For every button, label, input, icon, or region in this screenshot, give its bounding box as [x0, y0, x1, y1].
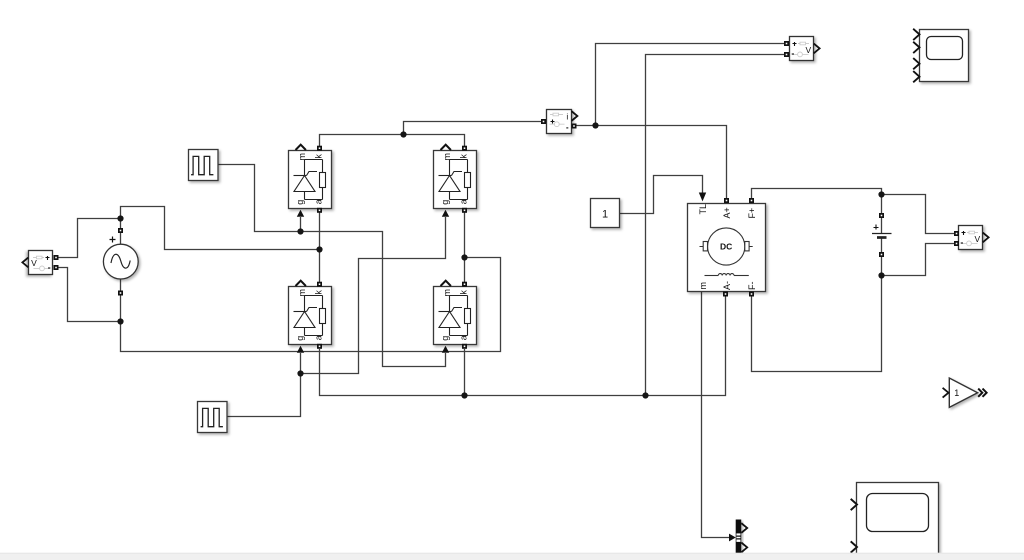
VM1 minus port	[54, 265, 59, 270]
svg-text:F+: F+	[747, 208, 757, 219]
wire Th2 anode to Th4 cathode	[464, 211, 466, 284]
svg-text:DC: DC	[720, 242, 732, 252]
svg-text:V: V	[31, 258, 37, 268]
junction node gate1 tap	[297, 228, 303, 234]
wire AC source bottom stub	[120, 279, 122, 291]
junction node bus riser	[400, 131, 406, 137]
scope Scope2 (2 inputs, clipped at bottom)	[851, 483, 938, 557]
junction node battery minus	[878, 272, 884, 278]
svg-text:A-: A-	[722, 281, 732, 290]
wire VM2 minus drop to DC- rail	[646, 55, 787, 396]
junction node rail/VM2	[642, 392, 648, 398]
junction node AC top	[117, 215, 123, 221]
current measurement CM1	[547, 110, 572, 134]
wire battery top node to VM3 plus	[882, 195, 957, 234]
wire Th1 anode to Th3 cathode	[319, 211, 321, 284]
scope Scope1 (4 inputs)	[914, 29, 969, 81]
junction node AC bottom	[117, 318, 123, 324]
wire gate 3 riser	[300, 353, 302, 374]
wire battery bottom stub	[881, 255, 883, 276]
arrowhead into demux input	[729, 534, 736, 542]
DC voltage source battery E1	[872, 218, 892, 252]
wire motor F+ to battery top	[752, 189, 882, 216]
window bottom scrollbar strip	[0, 553, 1024, 560]
svg-text:F-: F-	[747, 282, 757, 291]
CM1 plus port	[541, 119, 546, 124]
svg-text:V: V	[805, 45, 811, 55]
VM1 plus port	[54, 255, 59, 260]
svg-text:m: m	[698, 282, 708, 290]
thyristor Th3	[289, 281, 332, 353]
wire AC- bus over to Th2a/Th4k node	[121, 258, 501, 352]
wire pulse gen 1 to gates 1 and 4	[218, 165, 446, 367]
CM1 output chevron	[572, 112, 577, 121]
pulse generator PG2	[198, 402, 228, 433]
pulse generator PG1	[189, 150, 219, 181]
battery bottom port	[879, 252, 884, 257]
voltage measurement VM1 (flipped)	[22, 251, 52, 275]
voltage measurement VM2	[790, 37, 820, 61]
svg-text:TL: TL	[698, 204, 708, 215]
wire battery bottom node to VM3 minus	[882, 244, 957, 276]
motor A- port	[723, 292, 728, 297]
AC voltage source Vs	[103, 237, 138, 280]
motor F- port	[749, 292, 754, 297]
svg-text:A+: A+	[722, 207, 732, 218]
svg-text:1: 1	[954, 388, 959, 398]
wire motor F- loop to battery bottom	[752, 276, 882, 372]
constant block Constant1 value 1	[591, 199, 620, 228]
VM2 plus port	[784, 41, 789, 46]
wire gate 2 path	[301, 217, 446, 374]
junction node Th1a/AC+	[316, 246, 322, 252]
thyristor Th2	[434, 145, 477, 217]
motor A+ port	[724, 198, 729, 203]
svg-text:i: i	[566, 111, 568, 121]
junction node Th2a/AC-	[461, 254, 467, 260]
wire DC+ top bus	[320, 135, 465, 147]
VM3 minus port	[954, 241, 959, 246]
AC source bottom port	[118, 291, 123, 296]
VM2 minus port	[784, 52, 789, 57]
arrowhead into motor TL	[699, 193, 706, 202]
wire node to VM2 plus	[596, 44, 787, 126]
demux Demux1	[736, 520, 748, 554]
wire CM minus to motor A+	[577, 126, 727, 199]
wire Th4 anode drop	[464, 349, 466, 396]
wire VM1 minus to bottom dot	[56, 268, 121, 322]
DC machine motor block	[688, 204, 766, 292]
wire AC source top stub	[120, 233, 122, 245]
wire motor m output to demux	[702, 292, 730, 538]
junction node gate3 tap	[297, 370, 303, 376]
thyristor Th1	[289, 145, 332, 217]
wire DC- rail to motor A-	[320, 296, 726, 396]
thyristor Th4	[434, 281, 477, 353]
gain block Gain1 value 1	[943, 378, 986, 407]
wire AC+ to VM1 plus port	[56, 219, 121, 258]
wire AC+ dot to top port stub	[120, 219, 122, 229]
junction node battery plus	[878, 191, 884, 197]
svg-text:1: 1	[602, 209, 608, 221]
motor F+ port	[749, 198, 754, 203]
wire pulse gen 2 to gate 3 node	[228, 374, 301, 417]
wire gate 1 riser	[300, 217, 302, 232]
junction node rail/Th4	[461, 392, 467, 398]
battery top port	[879, 213, 884, 218]
AC source top port	[118, 228, 123, 233]
svg-text:V: V	[974, 234, 980, 244]
junction node CM minus	[592, 122, 598, 128]
wire AC+ up and over to bridge left node	[121, 207, 320, 250]
CM1 minus port	[572, 124, 577, 129]
voltage measurement VM3	[959, 226, 989, 250]
wire bus riser to current measurement plus	[404, 122, 544, 135]
wire constant to motor TL	[620, 176, 703, 214]
VM3 plus port	[954, 231, 959, 236]
wire AC- port down to bottom dot	[120, 296, 122, 322]
